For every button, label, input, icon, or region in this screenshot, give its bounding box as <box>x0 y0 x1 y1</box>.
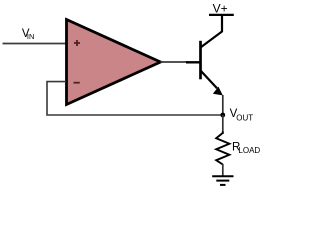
wire resistor to ground <box>222 164 224 176</box>
op-amp U1 <box>67 20 161 105</box>
transistor Q1 collector <box>201 15 223 48</box>
wire op-amp output <box>161 61 189 63</box>
resistor RLOAD label <box>232 142 260 156</box>
node VOUT junction dot <box>220 113 225 118</box>
ground <box>212 176 233 185</box>
wire feedback <box>47 82 223 115</box>
svg-text:LOAD: LOAD <box>238 146 260 155</box>
resistor RLOAD zigzag <box>216 132 229 165</box>
V+ terminal bar <box>209 14 234 16</box>
op-amp plus input mark <box>74 40 80 46</box>
transistor Q1 base bar <box>199 41 202 80</box>
svg-text:V+: V+ <box>213 2 228 16</box>
transistor Q1 emitter with arrow <box>201 71 223 96</box>
node VOUT label <box>230 108 254 122</box>
wire VIN input <box>3 43 67 45</box>
svg-text:IN: IN <box>27 32 35 41</box>
wire node to resistor <box>222 115 224 134</box>
op-amp minus input mark <box>74 82 80 84</box>
svg-text:OUT: OUT <box>236 113 253 122</box>
wire emitter to VOUT node <box>222 95 224 116</box>
transistor Q1 base lead <box>186 61 200 63</box>
node VIN label <box>22 28 35 41</box>
